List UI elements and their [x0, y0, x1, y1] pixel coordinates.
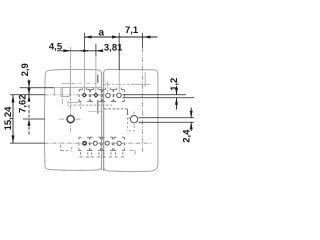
- arrow 1,2 top: [175, 88, 178, 95]
- center line row2 horizontal: [45, 142, 152, 144]
- svg-text:2,4: 2,4: [182, 129, 193, 143]
- dash near right box bottom: [130, 150, 136, 155]
- center line pin2 vertical: [95, 55, 97, 92]
- internal solid top line right block: [133, 83, 150, 85]
- center mating line right: [103, 72, 105, 171]
- arrow 7,1 right outside: [143, 36, 150, 39]
- extension line y=118.7 left: [23, 118, 45, 120]
- bottom pad P1 annulus: [83, 142, 86, 145]
- internal dashed top line right block: [104, 83, 133, 85]
- arrow 2,4 top: [190, 111, 193, 118]
- arrow 15,24 top: [12, 95, 15, 103]
- center line pin4 vertical: [118, 50, 120, 92]
- terminal block body left: [45, 69, 102, 170]
- extension line y=87.3 left: [20, 87, 54, 89]
- center line right flange horizontal: [127, 112, 135, 129]
- dim 2,4 vertical x=191.2: [190, 108, 192, 132]
- arrow a right / 7,1 left: [112, 36, 119, 39]
- arrow a left: [84, 36, 91, 39]
- internal vertical step x=54.3: [53, 88, 55, 95]
- terminal block body right: [104, 69, 158, 171]
- arrow 1,2 bottom: [175, 98, 178, 105]
- bottom pad dashed outline 1: [79, 137, 90, 150]
- left dim chain line x=28.6: [28, 80, 30, 88]
- bottom pad dashed outline 4: [114, 137, 125, 150]
- center line left flange horizontal: [60, 118, 83, 120]
- center line pin3 vertical short: [107, 82, 109, 92]
- right extension line y=117.6: [138, 117, 194, 119]
- extension line y=96.5 left: [10, 94, 45, 96]
- inter-row dash x=80.7: [80, 103, 82, 110]
- arrow 2,9 top: [28, 81, 31, 88]
- center line pin1 vertical: [83, 50, 85, 92]
- bowtie arrows at y=96.5: [28, 88, 31, 102]
- svg-text:15,24: 15,24: [3, 106, 14, 130]
- svg-text:4,5: 4,5: [49, 42, 63, 53]
- center line left flange vertical: [70, 47, 72, 96]
- arrow 15,24 bottom: [12, 135, 15, 143]
- extension line y=143.3 left: [10, 142, 45, 144]
- internal vertical step x=62.5: [63, 88, 80, 107]
- center mating line left: [101, 72, 103, 170]
- dim 15,24 line x=13: [12, 95, 14, 143]
- svg-text:2,9: 2,9: [20, 63, 31, 76]
- dimension 4,5 / 3,81 line y=50.8: [57, 50, 103, 52]
- mid light line y=111.3: [88, 110, 104, 112]
- svg-text:7,62: 7,62: [17, 94, 28, 113]
- arrow 2,4 bottom: [190, 122, 193, 129]
- svg-text:7,1: 7,1: [125, 25, 139, 36]
- arrow 3,81 outside right: [96, 49, 103, 52]
- latch line left block x=97.8 upper: [97, 75, 99, 83]
- pad P3 circle: [106, 93, 110, 97]
- center line x=143 long dashed vertical: [142, 48, 144, 152]
- dashed box around right flange circle: [127, 109, 129, 115]
- right extension line y=94.9: [123, 94, 187, 96]
- right extension line y=122.2: [138, 121, 194, 123]
- arrow 4,5 outside left: [63, 49, 70, 52]
- top pad dashed outline 2: [91, 90, 102, 102]
- internal top line left block: [62, 83, 96, 85]
- bottom pad dashed outline 3: [102, 137, 113, 150]
- extension line x=95.9: [95, 44, 97, 56]
- arrows bowtie at x=84.4: [81, 50, 88, 52]
- bottom row lead-in dash: [61, 145, 72, 153]
- pad P1 diamond: [82, 92, 87, 97]
- svg-text:1,2: 1,2: [169, 78, 180, 91]
- pad P4 circle: [117, 93, 121, 97]
- top pad dashed outline 4: [114, 90, 125, 102]
- center line row1 horizontal: [45, 94, 122, 96]
- bottom row lower dashes: [81, 152, 123, 155]
- pad P2 diamond: [93, 92, 98, 97]
- extension line x=84.4 top: [83, 33, 85, 50]
- top row clamp dashes above pads: [82, 88, 121, 90]
- latch line left block x=97.8 middle: [97, 100, 99, 114]
- top pad dashed outline 3: [103, 90, 114, 102]
- keying square left block: [61, 88, 70, 97]
- extension line x=143 top: [142, 33, 144, 48]
- bottom pad P4 circle: [117, 141, 121, 145]
- internal vertical right block x=145.2: [144, 72, 146, 87]
- internal contour line left block: [54, 87, 101, 89]
- mid dashed line y=105: [70, 104, 112, 106]
- bottom pad P3 circle: [105, 141, 109, 145]
- arrow 7,62 bottom: [28, 119, 31, 126]
- bottom pad dashed outline 2: [90, 137, 101, 150]
- svg-text:3,81: 3,81: [104, 42, 123, 53]
- mid dashed line y=109: [104, 108, 128, 110]
- right flange hole circle: [130, 116, 137, 123]
- right extension line y=98.3: [123, 97, 195, 99]
- svg-text:a: a: [99, 28, 105, 39]
- top pad dashed outline 1: [79, 90, 90, 102]
- dim 1,2 vertical x=175.7: [176, 91, 178, 110]
- dimension a line y=36.4: [84, 36, 157, 38]
- left flange hole donut: [67, 116, 74, 123]
- bottom pad P2 circle: [93, 141, 97, 145]
- extension line x=119.2 top: [118, 33, 120, 70]
